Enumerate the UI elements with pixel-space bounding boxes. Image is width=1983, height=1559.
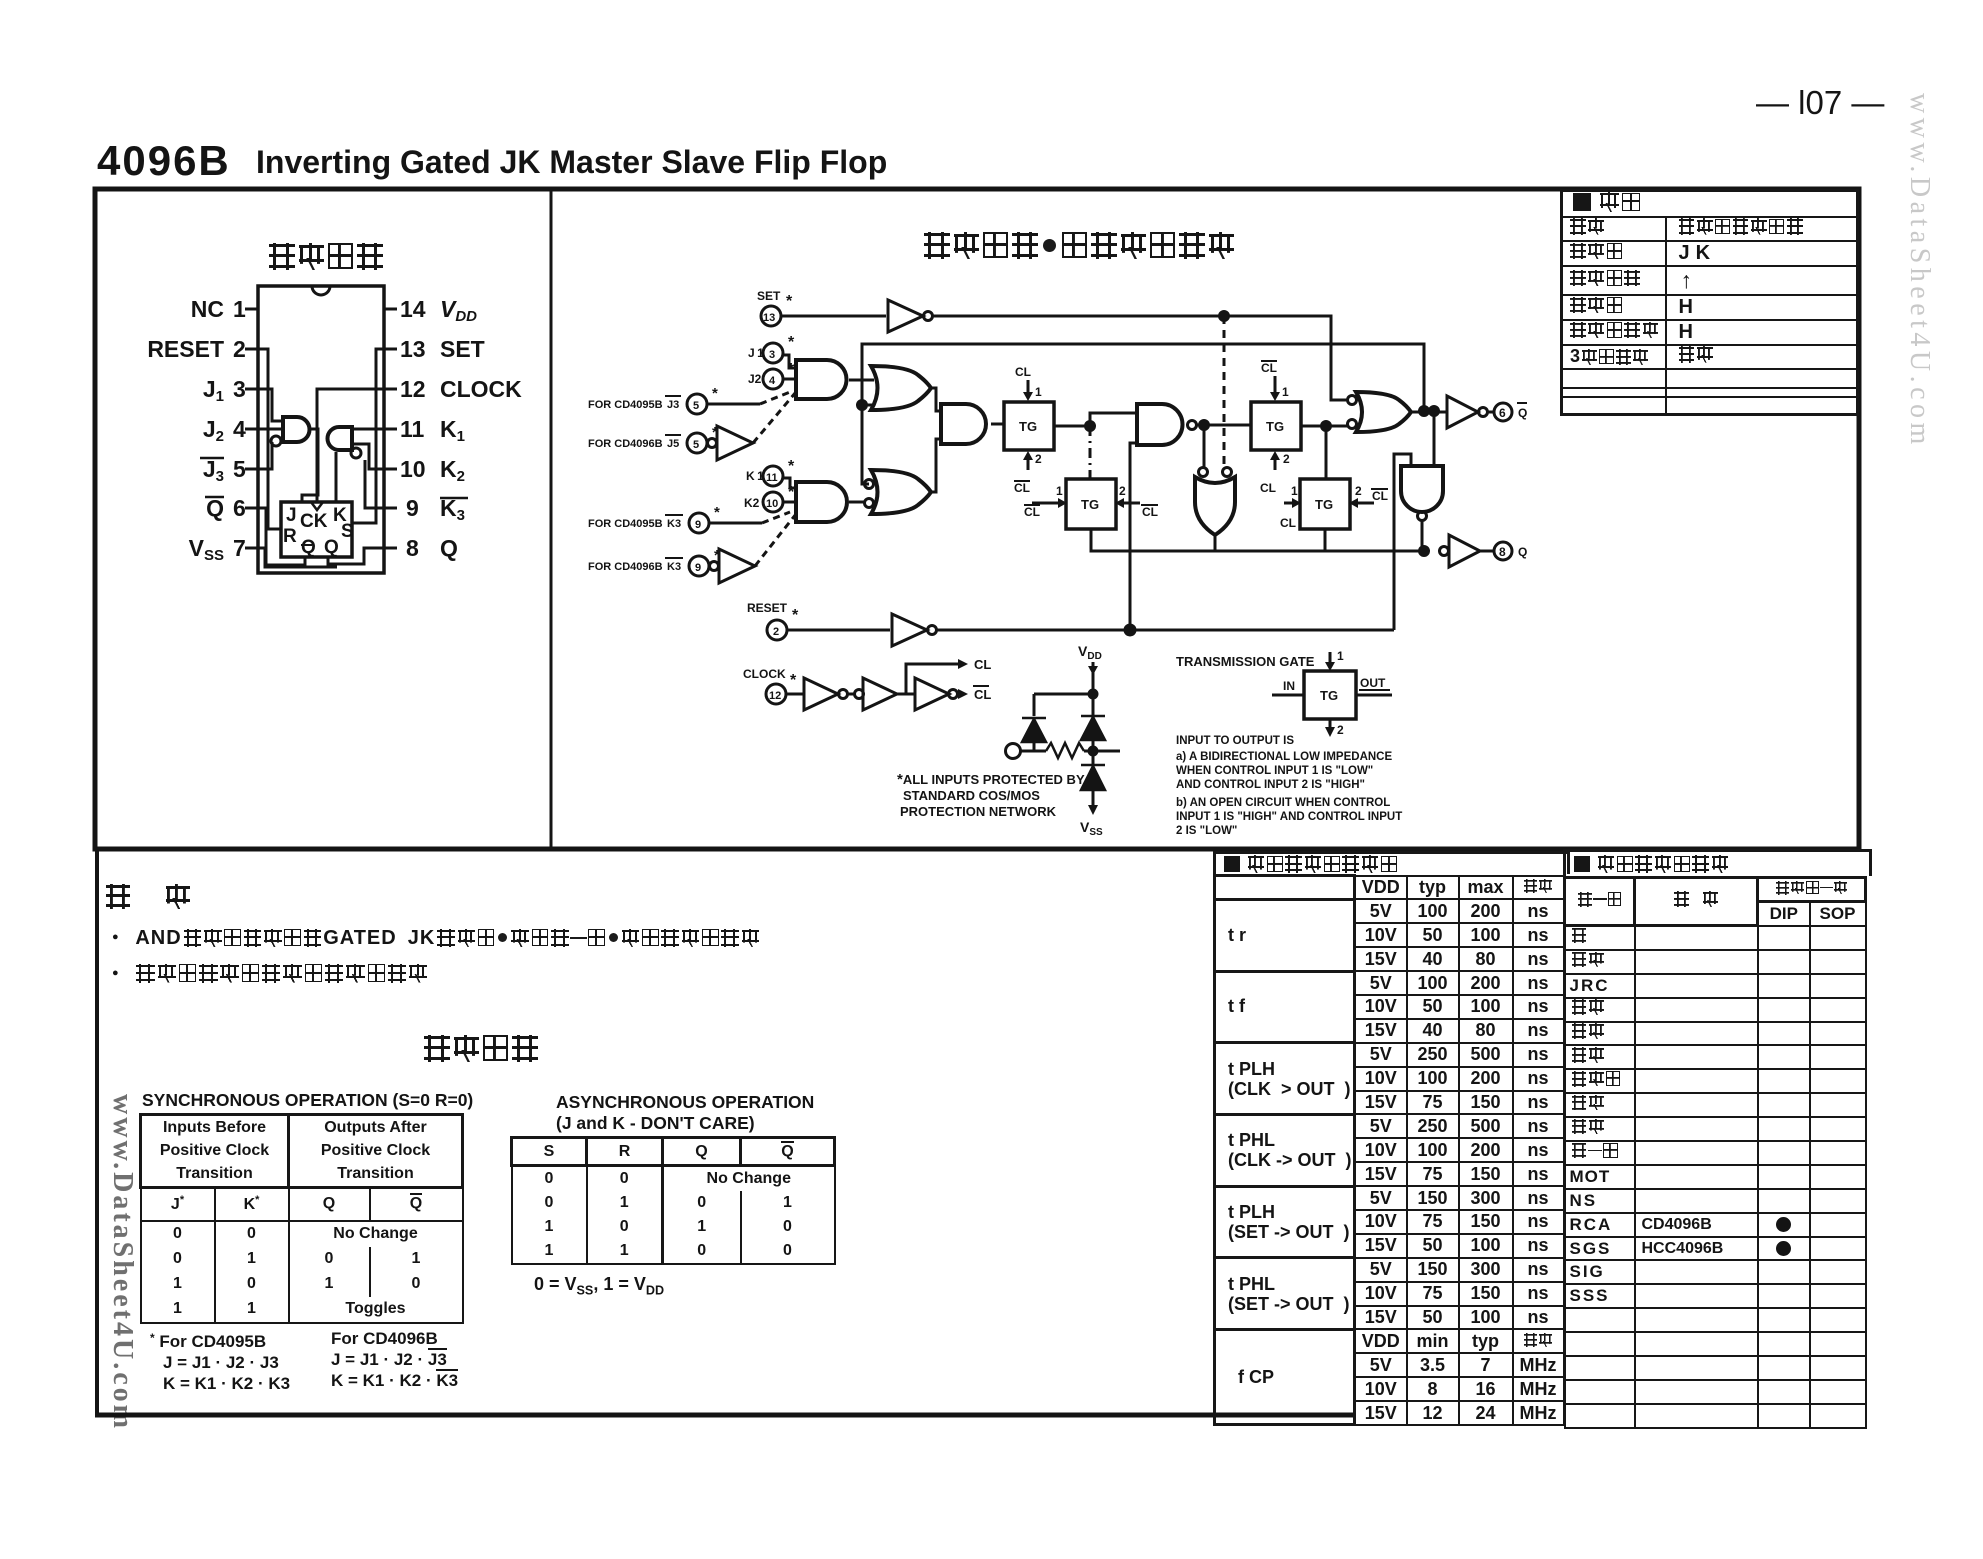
- divider pin box / logic box: [550, 189, 553, 849]
- svg-text:4: 4: [769, 375, 776, 387]
- wire pin11 K1 to A2: [352, 428, 384, 431]
- svg-text:CL: CL: [1280, 516, 1296, 530]
- svg-text:J2: J2: [203, 416, 224, 445]
- pin 3 stub: [245, 388, 258, 391]
- svg-text:CL: CL: [1261, 361, 1277, 375]
- async operation heading: [556, 1092, 814, 1134]
- inverter G18: [915, 678, 949, 710]
- wire G3 out to OR G6: [849, 379, 874, 382]
- pin 9 stub: [384, 507, 397, 510]
- svg-text:FOR CD4096B: FOR CD4096B: [588, 438, 663, 450]
- JK flip-flop block: [281, 502, 352, 557]
- svg-text:VDD: VDD: [440, 296, 477, 325]
- truth table heading: [424, 1035, 538, 1062]
- node G9 out: [1200, 421, 1209, 430]
- output pin6 Qbar: [1494, 403, 1512, 421]
- svg-text:J: J: [286, 505, 297, 526]
- wire to pin8: [1480, 550, 1494, 553]
- svg-text:5: 5: [693, 439, 699, 451]
- pin 13 stub: [384, 348, 397, 351]
- svg-text:1: 1: [233, 296, 246, 322]
- svg-text:7: 7: [233, 535, 246, 561]
- svg-text:CL: CL: [974, 687, 991, 702]
- inverter G13 (Qbar out): [1447, 396, 1478, 428]
- wire G10 out to slave line: [1214, 535, 1217, 551]
- svg-text:3: 3: [769, 349, 775, 361]
- wire upper branch: [1034, 694, 1093, 716]
- svg-text:Q: Q: [1518, 545, 1527, 559]
- svg-text:CL: CL: [1015, 365, 1031, 379]
- svg-text:2 IS "LOW": 2 IS "LOW": [1176, 825, 1237, 837]
- svg-text:5: 5: [233, 456, 246, 482]
- page number: [1756, 84, 1884, 122]
- svg-text:J3: J3: [203, 456, 224, 485]
- svg-text:Q: Q: [1518, 406, 1527, 420]
- svg-text:*: *: [790, 672, 797, 689]
- overline J3bar: [200, 457, 224, 460]
- TG2 controls: [1024, 484, 1158, 519]
- pin 6 stub: [245, 507, 258, 510]
- heading pin-connection (katakana): [269, 243, 383, 270]
- wire pin2 RESET to R: [258, 349, 281, 529]
- inverter G1 (SET): [888, 300, 923, 332]
- node Qbar to NAND: [1430, 407, 1439, 416]
- svg-text:2: 2: [1337, 723, 1344, 737]
- wire resistor to node: [1084, 750, 1120, 753]
- svg-text:11: 11: [766, 472, 778, 484]
- svg-text:10: 10: [766, 498, 778, 510]
- heading logic diagram (katakana): [924, 232, 1234, 259]
- sync operation heading: [142, 1090, 473, 1111]
- svg-text:INPUT 1 IS "HIGH" AND CONTROL: INPUT 1 IS "HIGH" AND CONTROL INPUT: [1176, 811, 1402, 823]
- svg-text:IN: IN: [1283, 679, 1295, 693]
- svg-text:*: *: [788, 334, 795, 351]
- buffer G4 input bubble: [710, 562, 719, 571]
- kinou function table: [1560, 189, 1859, 416]
- wire SET line: [933, 316, 1347, 400]
- svg-text:CL: CL: [1142, 505, 1158, 519]
- input terminal: [1006, 744, 1021, 759]
- label FOR CD4096B K3b: [588, 547, 720, 573]
- overline K3bar pin9: [440, 497, 468, 500]
- CK clock caret: [311, 502, 323, 510]
- svg-text:R: R: [283, 526, 297, 547]
- TG demo control 2: [1329, 719, 1332, 733]
- node RESET branch: [1125, 625, 1135, 635]
- svg-text:3: 3: [233, 376, 246, 402]
- svg-text:TG: TG: [1320, 688, 1338, 703]
- right watermark: [1903, 93, 1935, 449]
- svg-text:J3: J3: [667, 399, 679, 411]
- svg-text:13: 13: [400, 336, 426, 362]
- OR gate G11 (Qbar) with input bubbles: [1348, 396, 1357, 405]
- AND gate G8 (master): [941, 404, 986, 444]
- svg-text:*: *: [788, 458, 795, 475]
- pin 4 stub: [245, 428, 258, 431]
- feature bullet 1: [112, 927, 759, 950]
- outer frame upper boxes: [95, 189, 1859, 849]
- svg-text:2: 2: [1119, 484, 1126, 498]
- wire G11 out: [1409, 411, 1446, 414]
- pin numbers left: [233, 296, 246, 561]
- svg-text:9: 9: [695, 562, 701, 574]
- G12 output bubble: [1418, 512, 1427, 521]
- svg-text:2: 2: [773, 626, 779, 638]
- wire node up to NAND G9: [1090, 413, 1137, 426]
- note ALL INPUTS PROTECTED: [897, 771, 1085, 819]
- input K1 pin11: [746, 458, 795, 483]
- svg-text:CL: CL: [1260, 481, 1276, 495]
- svg-text:PROTECTION NETWORK: PROTECTION NETWORK: [900, 804, 1057, 819]
- AND gate A2 (pin side K, mirrored): [328, 427, 353, 450]
- wire pin4 J2 to AND: [258, 428, 283, 431]
- wire J2 to AND: [783, 378, 796, 381]
- inverter G15 (RESET): [892, 614, 927, 646]
- svg-text:RESET: RESET: [747, 601, 788, 615]
- svg-text:2: 2: [1283, 452, 1290, 466]
- inverter G17: [863, 678, 897, 710]
- wire pin3 J1 to AND: [258, 389, 283, 421]
- svg-text:b) AN OPEN CIRCUIT WHEN CONTRO: b) AN OPEN CIRCUIT WHEN CONTROL: [1176, 797, 1390, 809]
- wire pin6 Qbar: [258, 508, 305, 565]
- svg-text:K 1: K 1: [746, 469, 764, 483]
- wire G16 to G17: [847, 693, 855, 696]
- svg-text:WHEN CONTROL INPUT 1 IS "LOW": WHEN CONTROL INPUT 1 IS "LOW": [1176, 765, 1373, 777]
- svg-text:13: 13: [763, 312, 775, 324]
- wire node to G6 lower input: [862, 404, 874, 407]
- svg-text:1: 1: [1282, 385, 1289, 399]
- NAND gate G9: [1137, 404, 1183, 445]
- label FOR CD4095B K3: [588, 504, 720, 530]
- TRANSMISSION GATE label: [1176, 654, 1315, 669]
- sync footnotes: [150, 1328, 290, 1394]
- buffer G4 (K side): [719, 549, 755, 583]
- wire VDD rail: [1092, 662, 1095, 751]
- svg-text:TG: TG: [1019, 419, 1037, 434]
- wire node down to TG2 (dash-dot): [1089, 426, 1092, 479]
- svg-text:K3: K3: [667, 561, 681, 573]
- wire pin13 SET to S: [352, 349, 384, 523]
- input CLOCK pin12: [743, 667, 797, 689]
- svg-text:Q: Q: [301, 537, 316, 558]
- svg-text:2: 2: [233, 336, 246, 362]
- svg-text:12: 12: [400, 376, 426, 402]
- wire G17 out, CL branch: [897, 664, 958, 694]
- wire pin8 Q: [328, 548, 384, 564]
- VSS label: [1080, 819, 1103, 838]
- wire TG3 out to OR G11: [1301, 425, 1347, 428]
- wire to pin6: [1487, 411, 1494, 414]
- wire G4 dashed to AND: [755, 514, 796, 566]
- OR gate G6 (J side): [871, 366, 931, 410]
- async truth table: [510, 1136, 836, 1265]
- features box left border: [95, 849, 99, 1416]
- wire CLOCK to chain: [786, 693, 804, 696]
- TG demo box: [1304, 671, 1356, 719]
- svg-text:12: 12: [769, 690, 781, 702]
- output pin8 Q: [1494, 542, 1512, 560]
- G7 input bubbles: [865, 480, 874, 489]
- wire RESET line: [937, 629, 1394, 632]
- svg-text:8: 8: [406, 535, 419, 561]
- note INPUT TO OUTPUT: [1176, 735, 1402, 837]
- input J1 pin3: [748, 334, 795, 360]
- pin 5 stub: [245, 468, 258, 471]
- node feedback to OR G6: [858, 401, 867, 410]
- svg-text:J1: J1: [203, 376, 224, 405]
- wire J3 dashed to AND: [707, 403, 760, 406]
- TG1 CL control: [1015, 365, 1042, 399]
- svg-text:11: 11: [400, 416, 425, 442]
- wire K1 to AND: [783, 478, 796, 488]
- slave line: [1130, 550, 1424, 553]
- svg-text:K2: K2: [440, 456, 465, 485]
- TG3 CL control: [1260, 452, 1290, 495]
- wire G8 out to TG1: [991, 423, 1004, 426]
- pin 14 stub: [384, 308, 397, 311]
- diode D3: [1081, 765, 1105, 790]
- NOR gate G10 (vertical) with bubbles: [1199, 468, 1208, 477]
- svg-text:2: 2: [1035, 452, 1042, 466]
- wire TG2 bottom to slave line: [1091, 529, 1130, 551]
- node TG3 out: [1322, 422, 1331, 431]
- IC notch: [312, 286, 330, 295]
- pin labels right: VDD SET CLOCK K1 K2 K3bar Q: [440, 296, 522, 561]
- svg-text:CL: CL: [1372, 489, 1388, 503]
- inverter G14: [1449, 535, 1480, 567]
- node Q: [1420, 547, 1429, 556]
- svg-text:J5: J5: [667, 438, 679, 450]
- svg-text:TG: TG: [1266, 419, 1284, 434]
- node Qbar feedback: [1420, 407, 1429, 416]
- AND gate G3 (J inputs): [796, 360, 847, 399]
- svg-text:CL: CL: [1014, 481, 1030, 495]
- AND gate G5 (K inputs): [796, 482, 847, 522]
- input RESET pin2: [747, 601, 799, 624]
- svg-text:10: 10: [400, 456, 426, 482]
- wire CLbar arrow: [957, 693, 958, 696]
- svg-text:TG: TG: [1081, 497, 1099, 512]
- node TG1 out: [1086, 422, 1095, 431]
- wire G12 out to Q node: [1421, 521, 1424, 551]
- wire pin7 Vss bottom rail: [258, 548, 337, 567]
- wire G9 lower input from RESET branch: [1130, 443, 1137, 630]
- wire SET to inverter: [781, 315, 886, 318]
- label FOR CD4096B J5: [588, 424, 718, 450]
- wire TG4 bottom to slave line: [1324, 529, 1327, 551]
- svg-text:VSS: VSS: [189, 535, 224, 564]
- svg-text:1: 1: [1056, 484, 1063, 498]
- wire J1 to AND: [783, 355, 796, 368]
- buffer G2 (J side): [717, 426, 753, 460]
- svg-text:FOR CD4095B: FOR CD4095B: [588, 518, 663, 530]
- OR gate G7 (K side) with input bubbles: [871, 470, 931, 514]
- inverter G14 (Q out) input bubble: [1440, 547, 1449, 556]
- wire Qbar node down to NAND G12: [1433, 411, 1436, 466]
- input J2 pin4: [748, 361, 795, 386]
- wire pin12 CLOCK to CK: [317, 389, 384, 502]
- svg-text:*: *: [788, 484, 795, 501]
- TG4 transmission gate: [1300, 479, 1350, 529]
- label FOR CD4095B J3: [588, 385, 718, 411]
- pin 8 stub: [384, 547, 397, 550]
- TG3 transmission gate: [1251, 402, 1301, 450]
- wire K2 to AND: [783, 501, 796, 504]
- svg-text:Q: Q: [324, 537, 339, 558]
- svg-text:CL: CL: [974, 657, 991, 672]
- A1 input bubble: [271, 436, 281, 446]
- input K2 pin10: [744, 484, 795, 510]
- svg-text:RESET: RESET: [147, 336, 224, 362]
- pin 10 stub: [384, 468, 397, 471]
- wire node down to TG4: [1325, 426, 1328, 479]
- wire pin5 J3 to AND bubble: [258, 442, 272, 469]
- wire G7 out to AND G8: [931, 439, 941, 492]
- wire A2 output to K: [335, 452, 338, 502]
- wire D1 to input line: [1033, 742, 1036, 751]
- features box bottom border: [95, 1413, 1355, 1418]
- pin 7 stub: [245, 547, 258, 550]
- svg-text:K1: K1: [440, 416, 465, 445]
- svg-text:6: 6: [233, 495, 246, 521]
- overline Qbar pin6: [205, 496, 224, 499]
- svg-text:STANDARD COS/MOS: STANDARD COS/MOS: [903, 788, 1040, 803]
- svg-text:Q: Q: [440, 535, 458, 561]
- TG4 controls: [1280, 484, 1388, 530]
- feature bullet 2: [112, 962, 427, 986]
- svg-text:1: 1: [1035, 385, 1042, 399]
- svg-text:1: 1: [1337, 649, 1344, 663]
- wire pin9 K3 to A2 bubble: [365, 460, 384, 508]
- feedback wire from Qbar node: [862, 344, 1424, 484]
- wire RESET riser to NAND G12: [1394, 454, 1411, 630]
- JK block labels: [283, 505, 354, 558]
- TG demo control 1: [1329, 652, 1332, 668]
- TG1 transmission gate: [1004, 402, 1054, 450]
- wire pin10 K2 to A2: [352, 444, 384, 469]
- svg-text:K2: K2: [744, 496, 760, 510]
- svg-text:9: 9: [406, 495, 419, 521]
- svg-text:4: 4: [233, 416, 246, 442]
- svg-text:14: 14: [400, 296, 426, 322]
- svg-text:1: 1: [1291, 484, 1298, 498]
- svg-text:S: S: [341, 521, 354, 542]
- svg-text:CK: CK: [300, 511, 328, 532]
- wire node down to NOR G10: [1203, 425, 1206, 467]
- IC body U1: [258, 286, 384, 573]
- diode D2: [1081, 716, 1105, 740]
- wire K3 dashed to AND: [709, 522, 762, 525]
- svg-text:SET: SET: [757, 289, 781, 303]
- wire G6 out to AND G8: [931, 388, 941, 411]
- svg-text:9: 9: [695, 519, 701, 531]
- svg-text:*: *: [792, 607, 799, 624]
- node VDD branch: [1089, 690, 1097, 698]
- wire RESET to inverter: [787, 629, 890, 632]
- pin 1 stub: [245, 308, 258, 311]
- wire SET to NOR (dashed): [1223, 316, 1226, 467]
- pin numbers right: [400, 296, 426, 561]
- svg-text:6: 6: [1499, 406, 1506, 420]
- svg-text:TG: TG: [1315, 497, 1333, 512]
- svg-text:AND CONTROL INPUT 2 IS "HIGH": AND CONTROL INPUT 2 IS "HIGH": [1176, 779, 1365, 791]
- svg-text:*: *: [786, 293, 793, 310]
- manufacturer table: [1563, 849, 1872, 1429]
- features heading: [106, 884, 190, 909]
- protection network VDD label: [1078, 643, 1102, 662]
- node protection: [1089, 747, 1097, 755]
- svg-text:NC: NC: [191, 296, 224, 322]
- svg-text:5: 5: [693, 400, 699, 412]
- svg-text:K3: K3: [667, 518, 681, 530]
- svg-text:CLOCK: CLOCK: [440, 376, 522, 402]
- svg-text:CLOCK: CLOCK: [743, 667, 786, 681]
- svg-text:FOR CD4096B: FOR CD4096B: [588, 561, 663, 573]
- svg-text:INPUT TO OUTPUT IS: INPUT TO OUTPUT IS: [1176, 735, 1294, 747]
- svg-text:J2: J2: [748, 372, 762, 386]
- svg-text:2: 2: [1355, 484, 1362, 498]
- svg-text:*: *: [788, 361, 795, 378]
- sync truth table: [139, 1113, 464, 1324]
- switching characteristics table: [1213, 851, 1570, 1426]
- node SET branch: [1220, 312, 1229, 321]
- wire G9 out to TG3: [1197, 424, 1251, 427]
- TG3 CLbar control: [1261, 361, 1289, 399]
- wire G2 dashed to AND: [753, 392, 796, 443]
- svg-text:a) A BIDIRECTIONAL LOW IMPEDAN: a) A BIDIRECTIONAL LOW IMPEDANCE: [1176, 751, 1392, 763]
- title: [97, 137, 231, 185]
- AND gate A1 (pin side J): [283, 417, 310, 442]
- svg-text:SET: SET: [440, 336, 485, 362]
- wire A1 output to J: [302, 429, 318, 503]
- svg-text:*: *: [712, 385, 718, 402]
- svg-text:TRANSMISSION GATE: TRANSMISSION GATE: [1176, 654, 1315, 669]
- input SET pin13: [757, 289, 793, 310]
- svg-text:Q: Q: [206, 495, 224, 521]
- diode D1: [1022, 718, 1046, 742]
- svg-text:*ALL INPUTS PROTECTED BY: *ALL INPUTS PROTECTED BY: [897, 771, 1085, 788]
- inverter G16: [804, 678, 838, 710]
- async footnote: [534, 1274, 664, 1298]
- NAND gate G12 (vertical, slave): [1401, 466, 1443, 512]
- svg-text:*: *: [714, 504, 720, 521]
- svg-text:OUT: OUT: [1360, 676, 1386, 690]
- TG2 transmission gate: [1066, 479, 1116, 529]
- svg-text:VSS: VSS: [1080, 819, 1103, 838]
- pin 2 stub: [245, 348, 258, 351]
- left watermark: [106, 1094, 138, 1431]
- TG demo IN: [1283, 679, 1295, 693]
- buffer G2 input bubble: [708, 439, 717, 448]
- pin 12 stub: [384, 388, 397, 391]
- TG1 CLbar control: [1014, 452, 1042, 495]
- svg-text:VDD: VDD: [1078, 643, 1102, 662]
- svg-text:K3: K3: [440, 495, 465, 524]
- pin 11 stub: [384, 428, 397, 431]
- svg-text:CL: CL: [1024, 505, 1040, 519]
- wire terminal to resistor: [1021, 750, 1046, 753]
- G17 input bubble: [855, 690, 864, 699]
- pin labels left: NC RESET J1 J2 J3bar Qbar Vss: [147, 296, 224, 564]
- Qbar label overline in block: [301, 544, 312, 546]
- A2 output bubble: [351, 448, 361, 458]
- svg-text:8: 8: [1499, 545, 1506, 559]
- wire D3 down to VSS: [1092, 751, 1095, 812]
- resistor R1: [1046, 743, 1084, 758]
- wire TG1 out: [1054, 425, 1090, 428]
- wire G5 out to OR G7: [849, 501, 866, 504]
- G9 output bubble: [1188, 421, 1197, 430]
